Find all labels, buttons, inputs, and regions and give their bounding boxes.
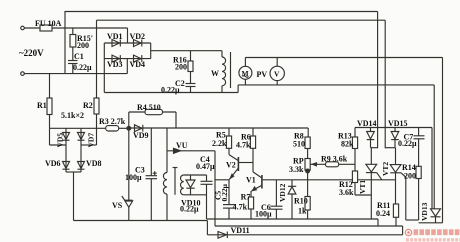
resistor R1	[47, 74, 52, 129]
wire rail step up to MV bottom	[237, 85, 239, 93]
svg-text:VD7: VD7	[87, 133, 96, 148]
wire VT2 gate loop	[406, 177, 419, 220]
wire bridge2 top line with R3 to node A	[50, 127, 129, 129]
capacitor C6	[271, 180, 283, 219]
svg-text:VD15: VD15	[388, 119, 408, 128]
capacitor C1	[68, 61, 78, 74]
resistor R4	[145, 109, 163, 114]
diode VD1	[112, 40, 120, 47]
wire R4 branch	[129, 111, 176, 113]
resistor R16	[188, 51, 193, 84]
svg-text:0.24: 0.24	[376, 209, 390, 218]
svg-text:100μ: 100μ	[255, 210, 272, 219]
svg-text:R7: R7	[241, 193, 251, 202]
node RP junction dot	[306, 169, 310, 173]
wire VT1 anode seg	[371, 147, 378, 149]
svg-text:M: M	[242, 69, 249, 78]
wire C5 branch	[215, 180, 229, 205]
svg-text:R9 3.6k: R9 3.6k	[321, 155, 348, 164]
svg-text:VD8: VD8	[86, 159, 102, 168]
svg-text:VD1: VD1	[107, 32, 123, 41]
svg-text:V1: V1	[246, 176, 256, 185]
wire VD11 line	[207, 234, 402, 236]
wire C3 branch	[150, 128, 152, 176]
wire top rail 2	[97, 19, 386, 21]
wire VU secondary top	[184, 174, 207, 176]
transistor V1	[251, 172, 262, 197]
wire RP to R10	[307, 170, 309, 196]
voltmeter V	[270, 58, 284, 85]
svg-text:0.22μ: 0.22μ	[220, 183, 229, 201]
wire MV top right drop	[442, 58, 444, 223]
diode VD4	[134, 55, 142, 62]
wire ground rail left	[74, 220, 208, 222]
wire MV bottom	[238, 84, 434, 86]
wire rail to VD11 drop	[206, 221, 208, 235]
wire R4 down to bus	[175, 112, 177, 128]
svg-text:3.3k: 3.3k	[289, 165, 304, 174]
wire VS branch	[128, 128, 130, 200]
svg-text:0.22μ: 0.22μ	[398, 139, 417, 148]
svg-text:VD13: VD13	[420, 202, 429, 221]
capacitor C7	[414, 128, 425, 167]
wire main bus VD9 line	[129, 127, 308, 129]
svg-text:R3 2.7k: R3 2.7k	[99, 117, 126, 126]
transformer VU secondary coil	[181, 175, 184, 195]
svg-text:2.2k: 2.2k	[212, 139, 227, 148]
svg-text:4.7k: 4.7k	[236, 141, 251, 150]
wire bridge1 top-mid drop	[127, 28, 129, 43]
svg-text:VD14: VD14	[357, 119, 377, 128]
wire R12 to VT1 cathode	[355, 194, 371, 196]
diode VD2	[134, 40, 142, 47]
svg-text:VD11: VD11	[231, 226, 250, 235]
resistor R11	[393, 204, 398, 226]
wire V1 base line	[262, 179, 396, 181]
wire VD11 right rise	[402, 226, 404, 235]
wire rail1 left drop	[64, 11, 66, 74]
wire bridge2 right column	[80, 128, 82, 172]
motor M	[239, 58, 252, 85]
diode VD5	[63, 133, 70, 141]
transformer VU core	[173, 168, 178, 195]
wire VU primary feed	[166, 128, 168, 173]
svg-text:R10: R10	[294, 197, 308, 206]
winding W coil	[222, 51, 226, 93]
winding W core bar	[230, 52, 232, 88]
thyristor VT2	[390, 148, 406, 204]
wire rail step down	[377, 219, 379, 226]
wire top rail 1	[65, 11, 378, 13]
capacitor C5	[223, 205, 236, 219]
fuse FU 10A	[40, 25, 52, 31]
wire VU secondary bottom	[184, 194, 207, 196]
svg-text:82k: 82k	[341, 140, 354, 149]
thyristor VT1	[366, 148, 382, 219]
svg-text:V2: V2	[226, 161, 236, 170]
resistor R2	[94, 98, 99, 128]
wire R6 to V1 collector	[252, 148, 254, 172]
terminal L2	[21, 72, 25, 76]
diode VD10	[186, 175, 195, 195]
arrow VU tap	[174, 148, 181, 153]
svg-text:VT1: VT1	[358, 180, 367, 194]
transformer VU primary coil	[163, 173, 167, 195]
svg-text:VU: VU	[176, 141, 188, 150]
wire AC neutral rail	[24, 73, 127, 75]
diode VD13	[431, 209, 441, 223]
svg-text:R4 510: R4 510	[137, 103, 161, 112]
svg-text:VD2: VD2	[130, 32, 146, 41]
wire bridge2 left column	[65, 128, 67, 172]
wire fuse line	[24, 27, 127, 29]
resistor R9	[326, 162, 339, 167]
svg-text:VD5: VD5	[56, 133, 65, 148]
wire bridge1 output to W	[151, 50, 222, 52]
capacitor C3	[146, 171, 158, 220]
svg-text:200: 200	[77, 41, 89, 50]
resistor R14	[416, 166, 421, 178]
diode VD8	[78, 162, 85, 170]
svg-text:4.7k: 4.7k	[233, 203, 248, 212]
resistor R13	[352, 128, 357, 165]
diode VD7	[78, 133, 85, 141]
capacitor C4	[201, 175, 213, 219]
svg-text:VD6: VD6	[45, 159, 61, 168]
potentiometer RP	[305, 159, 355, 171]
node A junction dot	[127, 126, 131, 130]
svg-text:510: 510	[293, 140, 305, 149]
wire rail1 right drop	[377, 12, 379, 149]
wire VU primary bottom	[166, 194, 168, 220]
wire VU return drop	[214, 151, 216, 226]
wire VT2 anode seg	[385, 147, 395, 149]
svg-text:0.22μ: 0.22μ	[180, 205, 199, 214]
svg-text:V: V	[274, 70, 280, 79]
diode VD12	[288, 180, 296, 219]
resistor R5	[226, 128, 231, 148]
svg-text:0.22μ: 0.22μ	[73, 63, 92, 72]
svg-text:200: 200	[404, 172, 416, 181]
wire bridge1 right vertical	[150, 43, 152, 59]
svg-text:PV: PV	[257, 70, 268, 79]
resistor R10	[305, 197, 310, 220]
resistor R8	[305, 137, 310, 159]
svg-text:200: 200	[175, 63, 187, 72]
svg-text:VD3: VD3	[107, 60, 123, 69]
wire rail2 left drop to R2	[96, 20, 98, 98]
terminal L1	[21, 26, 25, 30]
svg-text:100μ: 100μ	[125, 173, 142, 182]
wire VU tap with arrow	[167, 150, 215, 152]
svg-text:R1: R1	[37, 101, 47, 110]
svg-text:0.47μ: 0.47μ	[196, 162, 215, 171]
transistor V2	[229, 148, 253, 179]
wire VD13 bottom rail	[419, 222, 443, 224]
diode VD6	[63, 162, 70, 170]
svg-text:C1: C1	[74, 52, 84, 61]
resistor R3	[106, 126, 119, 131]
svg-text:1k: 1k	[298, 207, 307, 216]
wire bridge2 left loop	[50, 128, 67, 145]
wire ground rail mid	[207, 218, 379, 220]
watermark logo	[405, 229, 460, 241]
wire bridge1 bottom-mid drop	[126, 59, 128, 74]
resistor R15'	[70, 28, 76, 61]
wire bridge1 left vertical	[103, 43, 105, 93]
wire R4 bypass up	[128, 112, 130, 128]
wire bridge2 right loop	[81, 128, 97, 145]
resistor R7	[248, 197, 253, 219]
wire bridge2 bottom	[66, 171, 81, 173]
diode VD15	[391, 128, 399, 148]
svg-text:R2: R2	[83, 101, 93, 110]
wire rail L1	[215, 225, 403, 227]
diode VD11	[218, 232, 227, 239]
wire W bottom rail	[104, 92, 238, 94]
wire W1 top right bus	[355, 127, 432, 129]
wire R8 feed corner	[307, 128, 309, 137]
svg-text:VD12: VD12	[278, 183, 287, 202]
svg-text:0.22μ: 0.22μ	[161, 86, 180, 95]
svg-text:VT2: VT2	[381, 162, 390, 176]
wire bridge1 row2	[104, 58, 150, 60]
wire rail2 right drop	[384, 20, 386, 148]
capacitor C2	[186, 84, 196, 93]
svg-text:W: W	[211, 69, 219, 78]
wire MV top	[245, 57, 442, 59]
wire MV bottom right drop	[433, 85, 435, 209]
svg-text:VD9: VD9	[133, 131, 149, 140]
svg-text:~220V: ~220V	[19, 48, 44, 58]
wire bridge2 bottom drop	[73, 172, 75, 221]
svg-text:FU 10A: FU 10A	[35, 19, 62, 28]
diode VD3	[112, 55, 120, 62]
svg-text:5.1k×2: 5.1k×2	[61, 111, 84, 120]
svg-text:3.6k: 3.6k	[339, 188, 354, 197]
diode VD9	[135, 125, 143, 132]
wire W1 right corner drop	[431, 128, 433, 209]
thyristor VS	[122, 196, 133, 221]
svg-text:VS: VS	[112, 201, 123, 210]
wire bridge1 row1	[104, 42, 150, 44]
resistor R6	[250, 128, 255, 148]
resistor R12	[352, 164, 357, 195]
diode VD14	[367, 128, 375, 148]
svg-text:VD4: VD4	[130, 60, 146, 69]
